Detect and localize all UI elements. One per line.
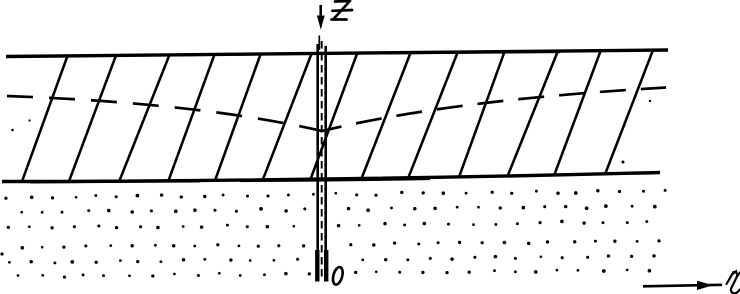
well left wall (316, 44, 319, 281)
interface line between hatched layer and dotted layer (2, 173, 660, 182)
hatch line 2 of upper aquifer layer (69, 55, 117, 183)
stipple dots of lower sandy layer (4, 189, 666, 279)
stray speck near left edge (11, 129, 14, 132)
dashed depression curve (water table), left branch dipping to well (7, 96, 322, 131)
hatch line 4 of upper aquifer layer (168, 54, 215, 182)
ground surface line (top of hatched layer) (6, 50, 668, 57)
well right wall (324, 46, 327, 281)
label 0 at well bottom (origin) (331, 266, 344, 286)
r-axis line at bottom right (643, 285, 722, 287)
label Z (axis label, handwritten style) (332, 1, 353, 20)
hatch line 1 of upper aquifer layer (22, 55, 68, 182)
dashed depression curve, right branch rising from well (322, 88, 666, 132)
stray speck bottom left edge (0, 252, 3, 255)
hatch line 5 of upper aquifer layer (215, 53, 261, 181)
hatch line 7 of upper aquifer layer (310, 52, 357, 180)
z-axis arrow (pointing down) above well (317, 5, 325, 30)
stray speck below last dash (649, 100, 651, 102)
hatch line 6 of upper aquifer layer (262, 53, 312, 181)
label r (handwritten gamma-like glyph) (727, 271, 740, 293)
hatch line 12 of upper aquifer layer (554, 50, 601, 176)
hatch line 9 of upper aquifer layer (408, 51, 458, 178)
hatch line 3 of upper aquifer layer (119, 54, 170, 182)
well bottom thickened walls (315, 250, 319, 282)
hatch line 13 of upper aquifer layer (605, 50, 653, 175)
hatch line 8 of upper aquifer layer (361, 52, 411, 180)
well axis (dashed centre line) (321, 41, 323, 279)
wire: thin vertical line connecting arrow to well top (318, 36, 320, 51)
r-axis arrowhead (697, 281, 713, 290)
hatch line 10 of upper aquifer layer (459, 51, 505, 178)
hatch line 11 of upper aquifer layer (507, 51, 558, 178)
stray speck left (28, 119, 30, 121)
stray speck right above interface (622, 161, 625, 164)
